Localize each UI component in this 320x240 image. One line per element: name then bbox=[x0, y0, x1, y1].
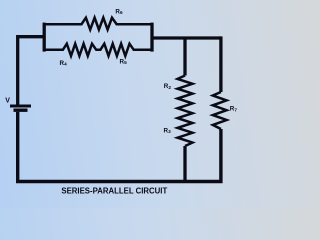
svg-text:R5: R5 bbox=[120, 59, 128, 66]
svg-text:R3: R3 bbox=[164, 128, 172, 135]
svg-text:R6: R6 bbox=[115, 9, 123, 16]
svg-text:R2: R2 bbox=[164, 83, 172, 90]
svg-text:V: V bbox=[5, 98, 10, 105]
svg-text:R7: R7 bbox=[230, 106, 238, 113]
svg-text:SERIES-PARALLEL CIRCUIT: SERIES-PARALLEL CIRCUIT bbox=[61, 186, 167, 195]
svg-text:R4: R4 bbox=[60, 60, 68, 67]
